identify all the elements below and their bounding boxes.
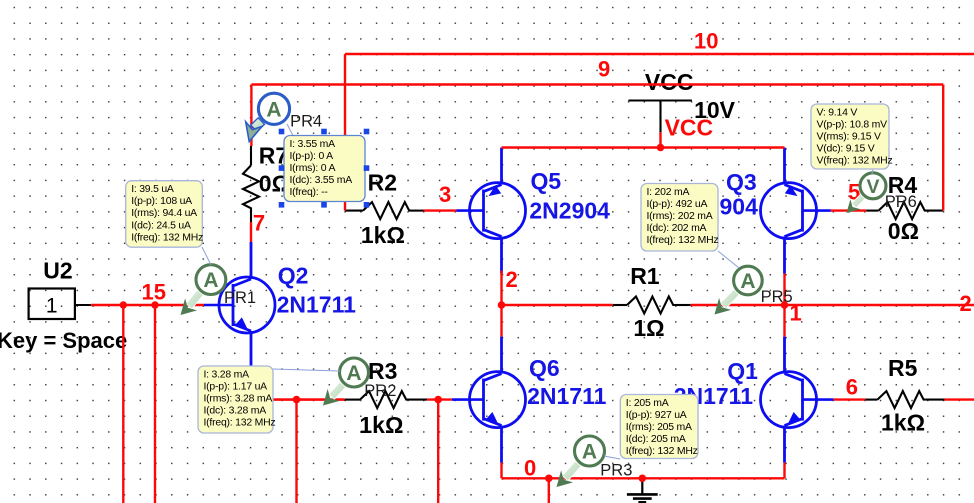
wire net 6 Q1 to R5 — [833, 398, 865, 400]
svg-text:A: A — [582, 441, 597, 464]
svg-text:Q2: Q2 — [278, 263, 309, 289]
svg-text:I(p-p): 108 uA: I(p-p): 108 uA — [131, 196, 192, 207]
label R5 — [888, 355, 918, 381]
transistor Q2 2N1711 — [204, 242, 275, 368]
tooltip PR4 readings selected — [284, 136, 365, 202]
label net 7 — [253, 211, 265, 236]
label Q1 — [727, 358, 758, 384]
resistor R7 — [243, 146, 259, 222]
probe PR1 circle — [196, 265, 226, 295]
svg-text:2N1711: 2N1711 — [527, 383, 607, 409]
resistor R3 — [345, 391, 428, 408]
label Key = Space — [0, 328, 127, 353]
wire net 15 drop a — [122, 305, 124, 503]
wire net 1 to Q1 — [783, 305, 785, 337]
svg-text:I(dc): 24.5 uA: I(dc): 24.5 uA — [131, 220, 191, 231]
ground — [627, 478, 658, 502]
label PR4 — [290, 113, 322, 131]
wire VCC stub — [659, 132, 661, 147]
svg-text:1Ω: 1Ω — [633, 315, 664, 341]
svg-text:15: 15 — [142, 280, 166, 305]
svg-text:I(p-p): 0 A: I(p-p): 0 A — [290, 151, 334, 162]
probe PR4 circle — [258, 93, 289, 124]
label PR1 — [224, 289, 256, 307]
label R3 — [368, 358, 397, 384]
label Q5 — [531, 168, 562, 194]
wire Q2 emitter to R3 row — [251, 368, 345, 400]
resistor R1 — [613, 297, 691, 314]
label U2 — [43, 258, 72, 284]
svg-text:I(dc): 202 mA: I(dc): 202 mA — [647, 223, 707, 234]
label Q3 — [726, 169, 757, 195]
svg-text:PR6: PR6 — [885, 193, 917, 211]
wire net 2 Q5 junction to Q6 — [500, 305, 502, 337]
transistor Q6 2N1711 — [452, 337, 526, 463]
transistor Q1 2N1711 mirrored — [761, 337, 834, 463]
probe PR3 arrow — [557, 461, 582, 487]
label R4 — [888, 172, 918, 198]
wire net 5 Q3 to R4 — [831, 209, 866, 211]
svg-text:I(rms): 202 mA: I(rms): 202 mA — [647, 211, 713, 222]
svg-text:I(freq): 132 MHz: I(freq): 132 MHz — [647, 235, 719, 246]
svg-text:2N2904: 2N2904 — [529, 198, 610, 224]
resistor R2 — [345, 202, 424, 219]
leader PR2 tooltip — [273, 369, 340, 371]
leader PR5 tooltip — [718, 251, 739, 268]
wire Q1 emitter drop — [783, 463, 785, 479]
svg-text:1kΩ: 1kΩ — [359, 412, 403, 438]
junction net 15 b — [151, 301, 158, 308]
svg-text:PR4: PR4 — [290, 113, 322, 131]
tooltip PR5 readings — [641, 184, 718, 252]
svg-text:6: 6 — [846, 375, 858, 400]
tooltip PR6 readings — [811, 104, 892, 169]
label net 9 — [598, 57, 610, 82]
label R2 — [368, 170, 397, 196]
leader PR4 tooltip — [287, 124, 293, 136]
svg-text:PR5: PR5 — [761, 288, 793, 306]
svg-text:I(dc): 3.28 mA: I(dc): 3.28 mA — [204, 406, 267, 417]
junction net 0 ground — [639, 475, 647, 483]
svg-text:V: 9.14 V: V: 9.14 V — [817, 107, 858, 118]
value R4 0ohm — [888, 218, 919, 244]
label net 6 — [846, 375, 858, 400]
value Q1 2N1711 — [674, 383, 754, 409]
junction net 1 — [781, 301, 789, 309]
wire net 1 Q3 drop — [783, 273, 785, 305]
resistor R5 — [865, 391, 944, 408]
svg-text:I(dc): 3.55 mA: I(dc): 3.55 mA — [290, 175, 353, 186]
svg-text:I: 39.5 uA: I: 39.5 uA — [131, 184, 174, 195]
wire net 2 Q5 to R1 — [502, 271, 613, 305]
resistor R4 — [866, 202, 943, 219]
wire VCC rail — [502, 146, 785, 148]
power VCC symbol — [628, 101, 692, 133]
svg-text:V(dc): 9.15 V: V(dc): 9.15 V — [817, 144, 875, 155]
svg-text:Q5: Q5 — [531, 168, 562, 194]
wire net 9 drop to R4 — [942, 85, 944, 211]
transistor Q5 2N2904 — [457, 148, 526, 274]
leader PR6 tooltip — [872, 169, 873, 174]
wire net 7 R7 to Q2 — [250, 222, 252, 242]
label PR5 — [761, 288, 793, 306]
svg-text:I(p-p): 492 uA: I(p-p): 492 uA — [647, 199, 708, 210]
wire net 0 bottom — [502, 477, 785, 479]
svg-text:R2: R2 — [368, 170, 397, 196]
svg-text:V(p-p): 10.8 mV: V(p-p): 10.8 mV — [817, 119, 888, 130]
tooltip PR2 readings — [198, 366, 275, 433]
label net 2 right edge — [960, 291, 972, 316]
probe PR2 circle — [340, 358, 369, 387]
probe PR1 arrow — [181, 290, 204, 315]
label net 10 — [694, 29, 718, 54]
label net 15 — [142, 280, 166, 305]
probe PR5 circle — [734, 266, 763, 295]
svg-text:2N1711: 2N1711 — [277, 292, 357, 318]
wire net 9 — [251, 83, 943, 85]
value Q2 2N1711 — [277, 292, 357, 318]
value Q3 partially hidden 904 — [720, 194, 759, 220]
value Q6 2N1711 — [527, 383, 607, 409]
junction net 0 a — [545, 475, 553, 483]
wire R5 to right edge — [945, 398, 974, 400]
wire net 10 top — [345, 53, 974, 55]
svg-text:I(p-p): 1.17 uA: I(p-p): 1.17 uA — [204, 381, 268, 392]
svg-text:PR1: PR1 — [224, 289, 256, 307]
label VCC black — [645, 69, 694, 95]
svg-text:I(freq): --: I(freq): -- — [290, 187, 329, 198]
label Q2 — [278, 263, 309, 289]
probe PR5 arrow — [715, 290, 740, 315]
svg-text:Key = Space: Key = Space — [0, 328, 127, 353]
value R3 1k — [359, 412, 403, 438]
wire R3 to Q6 — [427, 398, 452, 400]
svg-text:I(freq): 132 MHz: I(freq): 132 MHz — [626, 446, 698, 457]
value R5 1k — [881, 410, 925, 436]
wire R3 row hidden segment — [226, 398, 345, 400]
label PR2 — [364, 382, 396, 400]
svg-text:PR2: PR2 — [364, 382, 396, 400]
svg-text:V(freq): 132 MHz: V(freq): 132 MHz — [817, 156, 893, 167]
svg-text:I(p-p): 927 uA: I(p-p): 927 uA — [626, 410, 687, 421]
svg-text:1: 1 — [46, 295, 58, 318]
value R1 1ohm — [633, 315, 664, 341]
probe PR6 arrow — [847, 194, 865, 213]
svg-text:0: 0 — [524, 456, 536, 481]
wire drop from R3 left junction — [295, 400, 297, 503]
wire net 3 R2 to Q5 — [424, 209, 457, 211]
wire net 0 drop — [548, 478, 550, 503]
svg-text:A: A — [346, 362, 361, 385]
svg-text:A: A — [203, 269, 218, 292]
svg-text:1kΩ: 1kΩ — [881, 410, 925, 436]
svg-text:I: 3.55 mA: I: 3.55 mA — [290, 139, 336, 150]
leader PR1 tooltip — [202, 247, 211, 265]
label PR3 — [600, 462, 632, 480]
svg-text:PR3: PR3 — [600, 462, 632, 480]
wire net 15 U2 to Q2 — [91, 304, 204, 306]
svg-text:1kΩ: 1kΩ — [361, 222, 405, 248]
label R1 — [630, 263, 660, 289]
label R7 — [259, 143, 288, 169]
svg-text:I(rms): 94.4 uA: I(rms): 94.4 uA — [131, 208, 197, 219]
svg-text:I(freq): 132 MHz: I(freq): 132 MHz — [204, 418, 276, 429]
probe PR4 arrow — [246, 118, 265, 142]
tooltip PR3 readings — [620, 395, 698, 459]
svg-text:I(rms): 3.28 mA: I(rms): 3.28 mA — [204, 394, 273, 405]
svg-text:2: 2 — [506, 267, 518, 292]
label PR6 — [885, 193, 917, 211]
junction R3 left — [293, 396, 301, 404]
svg-text:10: 10 — [694, 29, 718, 54]
svg-text:U2: U2 — [43, 258, 72, 284]
label net 2 — [506, 267, 518, 292]
junction R3 right — [434, 396, 442, 404]
junction net 2 — [498, 301, 506, 309]
leader PR3 tooltip — [604, 456, 620, 459]
svg-text:3: 3 — [439, 182, 451, 207]
svg-text:Q6: Q6 — [529, 355, 560, 381]
svg-text:V(rms): 9.15 V: V(rms): 9.15 V — [817, 132, 881, 143]
svg-text:904: 904 — [720, 194, 759, 220]
svg-text:I(rms): 205 mA: I(rms): 205 mA — [626, 422, 692, 433]
wire drop from R3 right junction — [437, 400, 439, 503]
switch U2 box — [29, 289, 92, 320]
label VCC red — [665, 115, 714, 141]
junction VCC — [657, 144, 665, 152]
svg-text:R3: R3 — [368, 358, 397, 384]
svg-text:A: A — [740, 270, 755, 293]
svg-text:VCC: VCC — [645, 69, 694, 95]
selection handles PR4 tooltip — [279, 129, 370, 208]
svg-text:0Ω: 0Ω — [888, 218, 919, 244]
value R7 0ohm — [259, 171, 290, 197]
label net 5 — [848, 180, 860, 205]
probe PR2 arrow — [323, 382, 346, 405]
wire net 1 R1 to right edge — [691, 304, 974, 306]
svg-text:Q1: Q1 — [727, 358, 758, 384]
value R2 1k — [361, 222, 405, 248]
probe PR3 circle — [575, 436, 605, 466]
probe PR6 circle — [860, 173, 886, 199]
tooltip PR1 readings — [126, 181, 203, 248]
junction net 15 a — [120, 301, 127, 308]
wire Q6 emitter drop — [500, 463, 502, 479]
svg-text:I(freq): 132 MHz: I(freq): 132 MHz — [131, 232, 203, 243]
value Q5 2N2904 — [529, 198, 610, 224]
svg-text:2: 2 — [960, 291, 972, 316]
svg-text:7: 7 — [253, 211, 265, 236]
svg-text:9: 9 — [598, 57, 610, 82]
transistor Q3 2N2904 mirrored — [761, 148, 831, 274]
svg-text:I: 205 mA: I: 205 mA — [626, 398, 669, 409]
label net 3 — [439, 182, 451, 207]
label 10V — [694, 97, 736, 123]
svg-text:R1: R1 — [630, 263, 660, 289]
wire net 10 vertical to R2 — [344, 54, 346, 211]
label Q6 — [529, 355, 560, 381]
svg-text:V: V — [866, 176, 879, 198]
svg-text:Q3: Q3 — [726, 169, 757, 195]
svg-text:R5: R5 — [888, 355, 918, 381]
svg-text:A: A — [266, 98, 281, 121]
label net 1 — [790, 301, 802, 326]
wire net 15 drop b — [154, 305, 156, 503]
svg-text:I: 202 mA: I: 202 mA — [647, 187, 690, 198]
wire net 9 drop to R7 — [250, 85, 252, 147]
label net 0 — [524, 456, 536, 481]
svg-text:VCC: VCC — [665, 115, 714, 141]
svg-text:I(rms): 0 A: I(rms): 0 A — [290, 163, 336, 174]
svg-text:I(dc): 205 mA: I(dc): 205 mA — [626, 434, 686, 445]
switch U2 state 1 — [46, 295, 58, 318]
svg-text:I: 3.28 mA: I: 3.28 mA — [204, 369, 250, 380]
